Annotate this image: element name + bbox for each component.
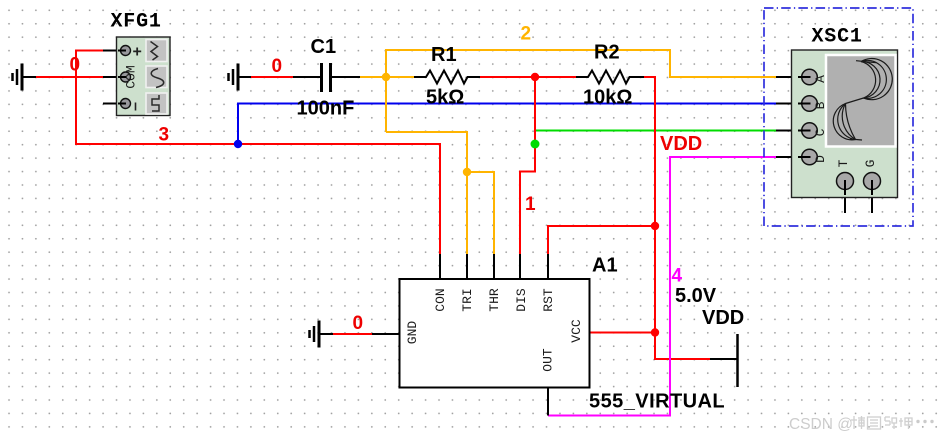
svg-text:VDD: VDD [660,133,702,155]
svg-text:5kΩ: 5kΩ [426,87,464,109]
svg-text:A: A [813,75,828,83]
svg-text:XFG1: XFG1 [111,11,162,34]
svg-text:1: 1 [525,194,536,215]
svg-text:R1: R1 [431,44,457,66]
svg-text:100nF: 100nF [297,98,355,120]
svg-text:0: 0 [353,313,364,334]
svg-text:10kΩ: 10kΩ [583,87,632,109]
svg-text:2: 2 [521,24,532,45]
svg-text:0: 0 [272,56,283,77]
svg-text:B: B [813,101,828,109]
svg-text:OUT: OUT [541,348,556,372]
svg-text:T: T [836,159,851,167]
svg-text:TRI: TRI [460,288,475,311]
svg-text:0: 0 [70,55,81,76]
svg-text:3: 3 [159,125,170,146]
svg-text:R2: R2 [594,42,620,64]
svg-text:D: D [813,155,828,163]
svg-text:5.0V: 5.0V [675,285,717,307]
svg-text:555_VIRTUAL: 555_VIRTUAL [589,391,725,413]
svg-text:RST: RST [541,288,556,312]
svg-text:XSC1: XSC1 [812,26,863,49]
svg-text:DIS: DIS [514,288,529,312]
svg-text:THR: THR [487,288,502,312]
svg-text:C1: C1 [311,36,337,58]
svg-text:C: C [813,128,828,136]
svg-text:A1: A1 [592,255,618,277]
svg-text:VCC: VCC [569,319,584,343]
svg-text:G: G [863,160,878,168]
svg-text:+: + [133,44,142,61]
svg-text:4: 4 [672,266,683,287]
svg-text:CSDN @: CSDN @ [789,416,853,433]
svg-text:GND: GND [405,321,420,345]
svg-text:VDD: VDD [702,307,744,329]
svg-text:CON: CON [433,288,448,311]
